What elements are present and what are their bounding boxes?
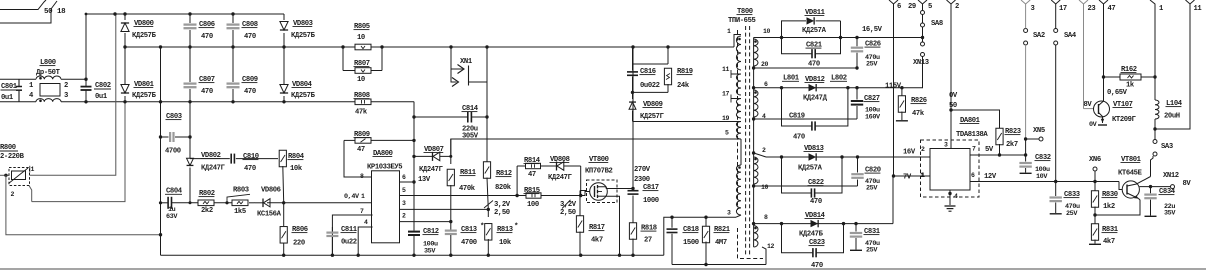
svg-text:7: 7 bbox=[360, 208, 364, 215]
svg-text:50: 50 bbox=[44, 8, 53, 16]
svg-text:XN13: XN13 bbox=[913, 59, 929, 67]
svg-text:7V: 7V bbox=[903, 174, 912, 182]
primary winding pins 1-5 bbox=[734, 35, 741, 48]
secondary windings bbox=[753, 38, 755, 248]
svg-text:17: 17 bbox=[722, 91, 730, 98]
diode VD809 bbox=[632, 92, 634, 99]
transistor VT107 KT209G bbox=[1103, 77, 1105, 98]
svg-text:6: 6 bbox=[402, 174, 406, 181]
wire snubber ground bbox=[672, 264, 766, 266]
svg-text:470k: 470k bbox=[459, 185, 476, 193]
svg-text:КД257Б: КД257Б bbox=[291, 32, 316, 40]
wire pin20 return bbox=[766, 67, 857, 69]
svg-text:47: 47 bbox=[1108, 5, 1116, 13]
svg-text:КТ209Г: КТ209Г bbox=[1112, 116, 1137, 124]
svg-text:47k: 47k bbox=[355, 109, 368, 117]
wire AC rail riser to bridge bbox=[85, 14, 87, 79]
inductor L104 bbox=[1154, 77, 1156, 100]
wire AC top rail bbox=[0, 78, 36, 80]
svg-text:5: 5 bbox=[725, 130, 729, 137]
resistor R815 100 bbox=[516, 166, 518, 196]
measuring point 3,2V bbox=[484, 201, 493, 209]
svg-text:КД257Г: КД257Г bbox=[640, 113, 665, 121]
svg-text:КД247Д: КД247Д bbox=[803, 95, 828, 103]
svg-text:10V: 10V bbox=[1036, 173, 1048, 181]
svg-text:3,2V: 3,2V bbox=[560, 201, 577, 209]
capacitor C818 1500 bbox=[671, 217, 673, 228]
svg-text:ТПИ-655: ТПИ-655 bbox=[728, 17, 755, 25]
wire mains input to pin 18 bbox=[0, 1, 57, 23]
pin 10 bbox=[754, 37, 766, 39]
capacitor C802 bbox=[85, 79, 87, 86]
pin 20 bbox=[754, 67, 766, 69]
capacitor C806 bbox=[189, 14, 191, 23]
capacitor C822 bbox=[782, 157, 812, 193]
svg-text:27: 27 bbox=[644, 237, 652, 245]
wire transformer pin 3 bbox=[664, 217, 736, 255]
capacitor C817 1000 bbox=[632, 189, 634, 190]
pin 12 bbox=[762, 247, 766, 265]
svg-text:2k7: 2k7 bbox=[1006, 141, 1018, 149]
capacitor C813 bbox=[445, 230, 457, 232]
svg-text:3,2V: 3,2V bbox=[494, 201, 511, 209]
svg-text:470: 470 bbox=[793, 134, 805, 142]
svg-text:4700: 4700 bbox=[461, 239, 477, 247]
svg-text:2: 2 bbox=[955, 3, 959, 11]
capacitor C827 bbox=[856, 88, 858, 100]
svg-text:470: 470 bbox=[244, 33, 256, 41]
svg-text:КД247Г: КД247Г bbox=[548, 174, 573, 182]
svg-text:0u22: 0u22 bbox=[341, 239, 357, 247]
pin 4 bbox=[754, 118, 766, 120]
wire 16.5V rectifier bbox=[766, 37, 923, 39]
svg-text:1500: 1500 bbox=[683, 239, 699, 247]
wire gate lower row bbox=[517, 195, 581, 197]
svg-text:1: 1 bbox=[921, 172, 925, 179]
resistor R823 2k7 bbox=[951, 110, 1000, 129]
primary winding pin 3 bbox=[736, 165, 741, 215]
svg-text:25V: 25V bbox=[866, 185, 878, 193]
svg-text:1k2: 1k2 bbox=[1103, 203, 1115, 211]
capacitor C823 bbox=[782, 224, 813, 253]
capacitor C808 bbox=[232, 14, 234, 23]
svg-text:2: 2 bbox=[11, 191, 15, 198]
svg-text:КД257Б: КД257Б bbox=[291, 92, 316, 100]
svg-text:5V: 5V bbox=[985, 146, 994, 154]
svg-text:470: 470 bbox=[201, 88, 213, 96]
svg-text:КД247Г: КД247Г bbox=[419, 166, 444, 174]
resistor R819 24k bbox=[667, 47, 669, 64]
capacitor C812 bbox=[413, 182, 415, 231]
svg-text:19: 19 bbox=[722, 115, 730, 122]
svg-text:КС156А: КС156А bbox=[257, 211, 282, 219]
svg-text:ТDA8138А: ТDA8138А bbox=[956, 131, 988, 139]
pin 4 ground bbox=[949, 190, 951, 205]
svg-text:КД247Г: КД247Г bbox=[201, 165, 226, 173]
svg-text:8: 8 bbox=[360, 173, 364, 180]
svg-text:820k: 820k bbox=[495, 184, 512, 192]
svg-text:XN6: XN6 bbox=[1089, 156, 1101, 164]
wire primary ground rail bbox=[161, 254, 664, 256]
svg-text:4M7: 4M7 bbox=[715, 239, 727, 247]
resistor R818 27 bbox=[629, 223, 636, 240]
diode VD801 bbox=[124, 47, 126, 84]
svg-text:3: 3 bbox=[1031, 5, 1035, 13]
svg-text:0u1: 0u1 bbox=[1, 94, 14, 102]
svg-text:470: 470 bbox=[244, 88, 256, 96]
svg-text:63V: 63V bbox=[166, 213, 178, 221]
svg-text:470: 470 bbox=[201, 33, 213, 41]
pin 10 lower bbox=[754, 185, 766, 187]
svg-text:SA8: SA8 bbox=[931, 20, 943, 28]
connector pins 29 5 bbox=[918, 0, 927, 4]
wire bottom DC bus bbox=[190, 101, 414, 103]
diode VD807 bbox=[414, 155, 433, 157]
svg-text:R803: R803 bbox=[233, 187, 249, 195]
svg-text:25V: 25V bbox=[866, 247, 878, 255]
wire 7V into DA801 pin1 bbox=[894, 175, 931, 177]
svg-text:*: * bbox=[480, 223, 484, 231]
svg-text:25V: 25V bbox=[1066, 210, 1078, 218]
svg-text:КР1033ЕУ5: КР1033ЕУ5 bbox=[367, 163, 402, 171]
capacitor C831 bbox=[855, 224, 857, 232]
connector XN5 bbox=[1024, 137, 1027, 140]
pin 6 bbox=[754, 87, 766, 89]
resistor R803 adjustable bbox=[232, 200, 248, 206]
svg-text:8V: 8V bbox=[1183, 180, 1192, 188]
svg-text:1: 1 bbox=[31, 166, 35, 173]
svg-text:10: 10 bbox=[761, 184, 769, 191]
wire R808 output corner bbox=[413, 102, 415, 182]
svg-text:29: 29 bbox=[908, 3, 916, 11]
diode VD814 bbox=[811, 220, 819, 227]
capacitor C816 bbox=[632, 47, 634, 64]
svg-text:6: 6 bbox=[897, 3, 901, 11]
svg-text:10: 10 bbox=[357, 76, 365, 84]
capacitor C814 bbox=[486, 47, 488, 117]
wire VD807 anode column / 13V net bbox=[413, 102, 415, 182]
resistor R813 10k bbox=[487, 209, 489, 217]
capacitor C834 bbox=[1150, 187, 1152, 194]
svg-text:17: 17 bbox=[1059, 5, 1067, 13]
svg-text:XN1: XN1 bbox=[460, 58, 473, 66]
capacitor C809 bbox=[232, 47, 234, 82]
svg-text:23: 23 bbox=[1088, 5, 1096, 13]
resistor R811 470k bbox=[451, 139, 733, 164]
svg-text:2,50: 2,50 bbox=[494, 209, 510, 217]
svg-text:SA4: SA4 bbox=[1064, 32, 1077, 40]
wire pin10 lower return bbox=[766, 185, 858, 187]
resistor R809 bbox=[344, 139, 355, 141]
posistor R800 degaussing loop wire bbox=[30, 14, 116, 175]
capacitor C811 bbox=[331, 227, 333, 232]
svg-text:1k: 1k bbox=[1126, 82, 1135, 90]
wire 12V rail bbox=[970, 181, 1119, 183]
pin 3 top bbox=[950, 140, 952, 149]
svg-text:470: 470 bbox=[808, 61, 820, 69]
svg-text:20: 20 bbox=[761, 61, 769, 68]
svg-text:8V: 8V bbox=[1084, 101, 1093, 109]
svg-text:4: 4 bbox=[762, 113, 766, 120]
svg-text:10: 10 bbox=[763, 28, 771, 35]
capacitor C826 bbox=[856, 38, 858, 47]
diode VD802 bbox=[189, 102, 191, 159]
wire 23 to VT107 base bbox=[1084, 108, 1095, 110]
svg-text:20uН: 20uН bbox=[1164, 113, 1180, 121]
svg-text:16,5V: 16,5V bbox=[862, 26, 883, 34]
wire drain node bbox=[606, 188, 633, 190]
connector XN12 8V out bbox=[1149, 185, 1152, 188]
zener diode VD806 bbox=[254, 202, 263, 204]
connector pin 3 / SA2 bbox=[1021, 0, 1030, 4]
diode VD804 bbox=[283, 47, 285, 84]
diode VD803 bbox=[283, 14, 285, 20]
svg-text:25V: 25V bbox=[866, 61, 878, 69]
svg-text:0u1: 0u1 bbox=[95, 93, 108, 101]
wire DC top bus bbox=[86, 13, 284, 15]
capacitor C820 bbox=[857, 157, 859, 173]
wire 7V rectifier bbox=[766, 223, 893, 225]
svg-text:160V: 160V bbox=[865, 114, 881, 122]
svg-text:47k: 47k bbox=[912, 110, 925, 118]
svg-text:18: 18 bbox=[57, 8, 66, 16]
connector XN6 bbox=[1093, 167, 1097, 171]
svg-text:0,4V: 0,4V bbox=[344, 193, 360, 201]
svg-text:КД247Б: КД247Б bbox=[799, 231, 824, 239]
transformer core bbox=[745, 26, 747, 256]
resistor R804 bbox=[279, 150, 286, 167]
svg-text:10k: 10k bbox=[499, 239, 512, 247]
connector pin 17 / SA4 bbox=[1051, 0, 1060, 4]
svg-text:6: 6 bbox=[764, 81, 768, 88]
svg-text:1000: 1000 bbox=[643, 197, 659, 205]
capacitor C833 bbox=[1055, 182, 1057, 197]
svg-text:11: 11 bbox=[1194, 5, 1203, 13]
svg-text:7: 7 bbox=[972, 146, 976, 153]
svg-text:11: 11 bbox=[722, 66, 730, 73]
svg-text:470: 470 bbox=[810, 198, 822, 206]
resistor R812 820k bbox=[486, 117, 488, 163]
svg-text:47: 47 bbox=[528, 171, 536, 179]
svg-text:XN12: XN12 bbox=[1163, 172, 1179, 180]
measuring point 3,2V gate bbox=[562, 200, 571, 209]
svg-text:470: 470 bbox=[244, 165, 256, 173]
svg-text:12: 12 bbox=[767, 243, 775, 250]
svg-text:3: 3 bbox=[944, 142, 948, 149]
svg-text:2: 2 bbox=[762, 147, 766, 154]
resistor R808 bbox=[355, 99, 371, 105]
svg-text:0V: 0V bbox=[949, 92, 958, 100]
svg-text:2: 2 bbox=[402, 213, 406, 220]
svg-text:220: 220 bbox=[293, 240, 305, 248]
wire pin4 return bbox=[766, 118, 857, 120]
svg-text:4700: 4700 bbox=[165, 148, 181, 156]
pin 2 bbox=[754, 153, 766, 157]
wire 115V rectifier bbox=[766, 87, 923, 89]
capacitor C807 bbox=[189, 47, 191, 82]
resistor R821 4M7 bbox=[705, 217, 707, 228]
svg-text:4k7: 4k7 bbox=[591, 237, 603, 245]
resistor R802 bbox=[198, 200, 214, 206]
resistor R817 4k7 bbox=[580, 190, 587, 192]
connector XN13 bbox=[921, 42, 925, 46]
svg-text:1: 1 bbox=[361, 193, 365, 200]
svg-text:*: * bbox=[514, 223, 518, 231]
connector pin 23 bbox=[1079, 0, 1088, 4]
diode VD808 bbox=[551, 165, 557, 167]
capacitor C819 bbox=[782, 88, 812, 126]
svg-text:XN5: XN5 bbox=[1033, 127, 1045, 135]
capacitor C810 bbox=[190, 158, 230, 160]
svg-text:270V: 270V bbox=[634, 166, 651, 174]
resistor R806 bbox=[283, 203, 285, 226]
svg-text:КД257А: КД257А bbox=[802, 27, 827, 35]
diode VD812 bbox=[809, 84, 817, 91]
svg-text:VD806: VD806 bbox=[261, 187, 281, 195]
transistor VT801 KT645E bbox=[1151, 156, 1154, 177]
wire base bbox=[1119, 182, 1122, 190]
diode VD813 bbox=[781, 156, 783, 158]
svg-text:КТ645Е: КТ645Е bbox=[1118, 170, 1143, 178]
svg-text:2300: 2300 bbox=[634, 176, 650, 184]
svg-text:4k7: 4k7 bbox=[1103, 238, 1115, 246]
svg-text:10k: 10k bbox=[290, 165, 303, 173]
wire drain to +310 bus bbox=[632, 47, 634, 189]
svg-text:24k: 24k bbox=[677, 82, 690, 90]
svg-text:13V: 13V bbox=[418, 176, 431, 184]
border frame bottom bbox=[0, 268, 1206, 270]
svg-text:3: 3 bbox=[727, 210, 731, 217]
jumper SA3 bbox=[1154, 129, 1156, 140]
svg-text:2-220В: 2-220В bbox=[0, 153, 25, 161]
svg-text:5: 5 bbox=[928, 3, 932, 11]
resistor R807 parallel bbox=[342, 47, 344, 71]
resistor R830 1k2 bbox=[1094, 182, 1096, 192]
resistor R826 47k bbox=[901, 88, 903, 97]
connector pin 6 bbox=[889, 0, 898, 4]
svg-text:1k5: 1k5 bbox=[234, 208, 246, 216]
svg-text:4: 4 bbox=[364, 219, 368, 226]
svg-text:12V: 12V bbox=[984, 173, 997, 181]
svg-text:2k2: 2k2 bbox=[201, 207, 213, 215]
svg-text:SA2: SA2 bbox=[1033, 32, 1045, 40]
svg-text:5: 5 bbox=[402, 187, 406, 194]
svg-text:КД257Б: КД257Б bbox=[132, 32, 157, 40]
wire feedback to DA800 pin1 bbox=[284, 202, 373, 204]
svg-text:35V: 35V bbox=[1164, 210, 1176, 218]
resistor R831 4k7 bbox=[1094, 215, 1096, 225]
svg-text:4: 4 bbox=[954, 193, 958, 200]
connector pin 11 bbox=[1186, 0, 1195, 4]
svg-text:2: 2 bbox=[921, 146, 925, 153]
wire DA800 pin8 riser bbox=[344, 140, 373, 177]
diode VD811 bbox=[782, 21, 807, 38]
wire 7V riser to DA801 bbox=[892, 176, 894, 224]
svg-text:10: 10 bbox=[357, 34, 365, 42]
svg-text:0u022: 0u022 bbox=[640, 82, 660, 90]
svg-text:КП707В2: КП707В2 bbox=[585, 168, 612, 176]
svg-text:0,65V: 0,65V bbox=[1107, 89, 1128, 97]
pin 8 bbox=[754, 223, 766, 225]
capacitor C821 bbox=[782, 38, 812, 54]
svg-text:КД257Б: КД257Б bbox=[132, 92, 157, 100]
svg-text:100: 100 bbox=[527, 201, 539, 209]
svg-text:47: 47 bbox=[357, 146, 365, 154]
connector pin 2 bbox=[947, 0, 956, 4]
svg-text:3: 3 bbox=[402, 200, 406, 207]
svg-text:35V: 35V bbox=[424, 248, 436, 256]
jumper SA8 bbox=[921, 11, 925, 15]
svg-text:3: 3 bbox=[64, 92, 68, 100]
svg-text:8: 8 bbox=[764, 214, 768, 221]
wire to gate bbox=[580, 166, 582, 196]
wire bleeder column bbox=[160, 47, 162, 255]
wire 16V rectifier bbox=[766, 156, 930, 158]
wire AC bottom rail bbox=[0, 101, 36, 103]
svg-text:2: 2 bbox=[64, 82, 68, 90]
svg-text:16V: 16V bbox=[903, 149, 916, 157]
svg-text:1: 1 bbox=[727, 28, 731, 35]
svg-text:2,50: 2,50 bbox=[560, 209, 576, 217]
wire to transformer pin 19 bbox=[633, 121, 738, 123]
svg-text:SA3: SA3 bbox=[1161, 143, 1173, 151]
svg-text:6: 6 bbox=[971, 172, 975, 179]
wire +310V bus bbox=[125, 46, 734, 48]
diode VD800 bbox=[124, 14, 126, 20]
wire mains input to pin 50 bbox=[0, 0, 46, 10]
connector pin 1 bbox=[1150, 0, 1155, 77]
capacitor C832 bbox=[1025, 139, 1027, 162]
svg-text:КД257А: КД257А bbox=[798, 165, 823, 173]
transformer screen bbox=[738, 228, 764, 259]
resistor R814 47 bbox=[517, 165, 525, 167]
connector pin 47 bbox=[1099, 0, 1108, 4]
